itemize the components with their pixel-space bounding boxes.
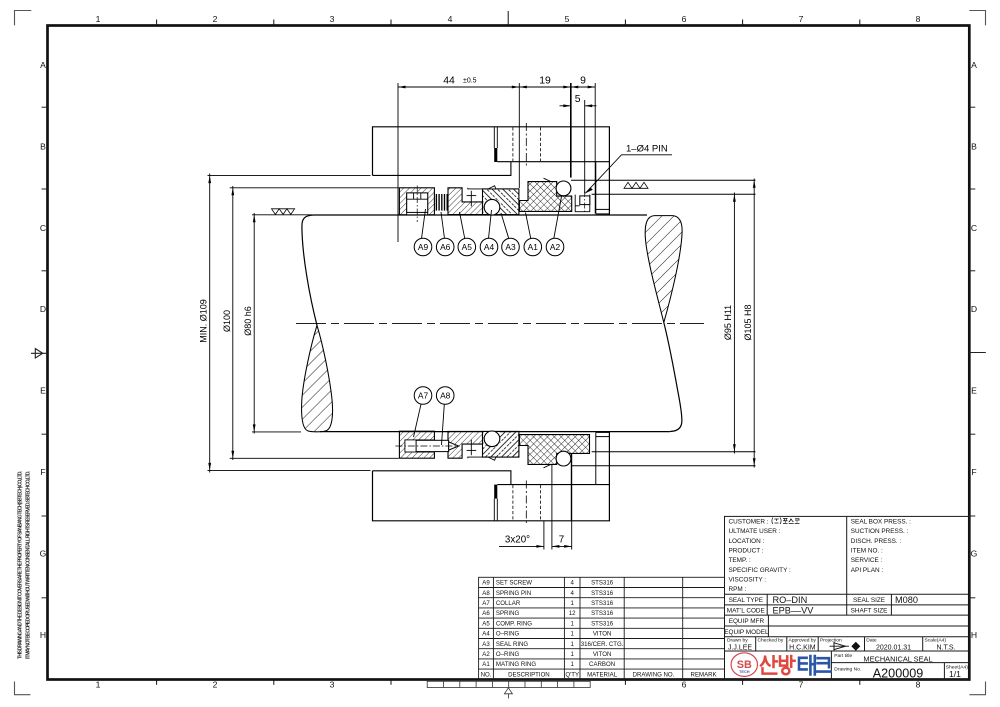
svg-text:9: 9 [580,76,586,87]
dim O95 H11 [733,193,735,454]
svg-text:3: 3 [330,680,335,690]
logo hangul SANBANG (red, vector) [761,656,795,674]
surface roughness marks on shaft (top-left) [272,209,295,215]
svg-text:1: 1 [96,680,101,690]
svg-text:MIN. Ø109: MIN. Ø109 [199,299,209,343]
housing bore lines right [571,180,756,465]
svg-text:2: 2 [213,680,218,690]
mating ring A1 lower [519,435,589,465]
svg-text:7: 7 [799,14,804,24]
svg-text:F: F [971,467,976,477]
svg-text:O–RING: O–RING [496,651,520,658]
balloon A2 [554,197,562,239]
svg-text:ITEM NO. :: ITEM NO. : [851,548,883,555]
svg-text:316/CER. CTG.: 316/CER. CTG. [581,641,624,648]
svg-text:A1: A1 [482,661,490,668]
svg-text:Ø105 H8: Ø105 H8 [743,304,753,340]
svg-text:D: D [971,304,977,314]
gland slot lower [493,499,495,521]
balloon A7 [414,404,422,437]
shaft right profile [664,323,682,432]
o-ring A4 upper [484,199,500,215]
svg-text:SEAL SIZE: SEAL SIZE [853,597,885,604]
dim 3x20 deg [499,545,544,547]
svg-text:SHAFT SIZE: SHAFT SIZE [851,607,888,614]
frame row ticks [42,107,986,598]
svg-text:CARBON: CARBON [589,661,615,668]
svg-text:1: 1 [96,14,101,24]
svg-text:A5: A5 [462,242,473,252]
svg-text:Ø80 h6: Ø80 h6 [243,306,253,336]
svg-text:SEAL TYPE: SEAL TYPE [729,597,763,604]
svg-text:7: 7 [799,680,804,690]
svg-text:A: A [40,60,46,70]
svg-text:M080: M080 [895,595,918,605]
gland slot upper [493,127,495,148]
gland plate lower flange [373,432,610,521]
svg-text:SEAL BOX PRESS. :: SEAL BOX PRESS. : [851,519,911,526]
svg-text:EQUIP MODEL: EQUIP MODEL [724,629,769,636]
svg-text:5: 5 [575,94,581,105]
svg-text:3: 3 [330,14,335,24]
compression ring A5 upper [448,188,483,215]
shaft bottom edge [320,431,670,433]
svg-text:H: H [40,630,46,640]
svg-text:DISCH. PRESS. :: DISCH. PRESS. : [851,538,902,545]
svg-text:Checked by: Checked by [758,638,784,644]
shaft right cone break (hatched) [645,216,682,323]
metric reference scale bar [427,681,590,698]
svg-text:STS316: STS316 [591,610,614,617]
svg-text:7: 7 [559,535,564,546]
svg-text:1: 1 [571,651,575,658]
gland bolt hole (hidden) upper [512,127,514,161]
svg-text:1: 1 [571,641,575,648]
svg-text:1/1: 1/1 [949,669,961,679]
dim O100 [232,186,234,460]
collar A7 upper [399,188,434,215]
gland recess face line lower (thick) [571,454,573,521]
svg-text:SEAL RING: SEAL RING [496,641,529,648]
seal ring A3 upper [483,189,519,215]
balloon A6 [441,212,445,239]
svg-text:2020.01.31: 2020.01.31 [876,645,911,652]
svg-text:COLLAR: COLLAR [496,600,521,607]
svg-text:ULTMATE USER :: ULTMATE USER : [729,528,781,535]
svg-text:Ø100: Ø100 [222,310,232,332]
svg-text:Approved by: Approved by [789,638,817,644]
svg-text:Scale(A4): Scale(A4) [925,638,947,644]
svg-text:1: 1 [571,661,575,668]
svg-text:1: 1 [571,600,575,607]
o-ring A2 upper [556,181,571,196]
svg-text:DRAWING NO.: DRAWING NO. [633,671,675,678]
gland bolt hole (hidden) lower [512,485,514,520]
svg-text:SPRING PIN: SPRING PIN [496,590,531,597]
gland outer ring upper [595,162,597,214]
compression ring A5 lower [448,431,483,458]
drive pin of comp ring lower [470,440,472,456]
svg-text:A9: A9 [482,580,490,587]
svg-text:VITON: VITON [593,631,612,638]
svg-text:C: C [971,223,977,233]
svg-text:A200009: A200009 [873,666,923,680]
svg-text:CUSTOMER :: CUSTOMER : [729,519,769,526]
svg-text:D: D [40,304,46,314]
svg-text:E: E [971,386,977,396]
svg-text:TEMP. :: TEMP. : [729,557,751,564]
svg-text:H: H [971,630,977,640]
svg-text:DESCRIPTION: DESCRIPTION [508,671,550,678]
dim 5 [560,105,597,107]
balloon A4 [489,210,492,239]
svg-text:VISCOSITY :: VISCOSITY : [729,576,767,583]
parts list table [479,577,725,679]
svg-text:6: 6 [682,680,687,690]
gland recess face line (thick) [570,83,572,178]
svg-text:8: 8 [916,680,921,690]
set screw A9 [407,193,428,213]
svg-text:A1: A1 [528,242,539,252]
spring A6 [436,194,447,211]
drive pin of comp ring upper [470,191,472,207]
svg-text:A8: A8 [440,390,451,400]
dim 44 +-0.5 [398,86,519,88]
svg-text:SUCTION PRESS. :: SUCTION PRESS. : [851,528,909,535]
surface roughness marks on bore (top-right) [624,182,648,188]
svg-text:4: 4 [571,580,575,587]
projection symbol [830,642,850,651]
svg-text:LOCATION :: LOCATION : [729,538,765,545]
svg-text:Date: Date [866,638,877,644]
frame row letters [40,60,978,640]
svg-text:STS316: STS316 [591,620,614,627]
spring pin A8 [416,440,449,451]
left centering arrow [31,349,48,358]
svg-text:API PLAN :: API PLAN : [851,567,884,574]
svg-text:Part title: Part title [834,653,852,659]
svg-text:STS316: STS316 [591,590,614,597]
balloon A9 [422,209,426,239]
dim 19 [519,86,571,88]
svg-text:SERVICE :: SERVICE : [851,557,883,564]
shaft top edge [314,214,648,216]
svg-text:A7: A7 [418,390,429,400]
shaft left profile [302,215,317,325]
svg-text:Projection: Projection [820,638,842,644]
svg-text:A5: A5 [482,620,490,627]
svg-text:Drawn by: Drawn by [727,638,748,644]
dimension extension lines [208,83,596,550]
svg-text:A4: A4 [484,242,495,252]
customer korean name (vector strokes) [772,518,800,525]
svg-text:1: 1 [571,631,575,638]
balloon A8 [442,404,445,445]
svg-text:8: 8 [916,14,921,24]
svg-text:STS316: STS316 [591,580,614,587]
dim O105 H8 [753,179,755,468]
pin slot upper [575,195,590,212]
o-ring A4 lower [484,431,500,447]
svg-text:B: B [971,141,977,151]
svg-text:COMP. RING: COMP. RING [496,620,532,627]
svg-text:A3: A3 [505,242,516,252]
svg-text:IT MAY NOT BE COPIED OR USED W: IT MAY NOT BE COPIED OR USED WITHOUT WRI… [26,470,32,659]
svg-text:44: 44 [443,76,455,87]
svg-text:SET SCREW: SET SCREW [496,580,532,587]
svg-text:A: A [971,60,977,70]
svg-text:N.T.S.: N.T.S. [936,645,955,652]
svg-text:A2: A2 [550,242,561,252]
svg-text:C: C [40,223,46,233]
svg-text:PRODUCT :: PRODUCT : [729,548,764,555]
svg-text:MECHANICAL SEAL: MECHANICAL SEAL [863,654,932,663]
pin upper [580,196,590,205]
svg-text:6: 6 [682,14,687,24]
svg-text:1–Ø4 PIN: 1–Ø4 PIN [626,144,668,155]
svg-text:O–RING: O–RING [496,631,520,638]
shaft centerline [296,322,704,324]
o-ring A2 lower [556,451,571,466]
gland outer ring lower [595,433,597,485]
svg-text:Q'TY: Q'TY [565,671,579,678]
svg-text:RPM :: RPM : [729,586,747,593]
mating ring A1 upper [519,182,571,212]
logo hangul TECH (blue, vector) [799,656,831,674]
svg-text:A4: A4 [482,631,490,638]
svg-text:H.C.KIM: H.C.KIM [789,644,816,651]
svg-text:4: 4 [571,590,575,597]
seal type row [724,597,887,636]
svg-text:A3: A3 [482,641,490,648]
frame column numbers [96,14,921,690]
svg-text:EQUIP MFR: EQUIP MFR [729,618,765,625]
dim MIN O109 [209,174,211,473]
collar A7 lower [399,431,434,458]
svg-text:A7: A7 [482,600,490,607]
svg-text:SPECIFIC GRAVITY :: SPECIFIC GRAVITY : [729,567,791,574]
svg-text:Ø95 H11: Ø95 H11 [723,305,733,340]
svg-text:J.J.LEE: J.J.LEE [728,644,752,651]
svg-text:1: 1 [571,620,575,627]
svg-text:12: 12 [569,610,576,617]
gland plate upper flange [373,127,610,215]
frame column ticks [157,11,860,685]
svg-text:VITON: VITON [593,651,612,658]
svg-text:STS316: STS316 [591,600,614,607]
svg-text:B: B [40,141,46,151]
svg-text:Drawing No.: Drawing No. [834,667,861,673]
svg-text:19: 19 [539,76,551,87]
dim 7 [552,545,572,547]
svg-text:F: F [40,467,45,477]
svg-text:5: 5 [565,14,570,24]
svg-text:G: G [40,549,47,559]
svg-text:±0.5: ±0.5 [463,78,477,85]
svg-text:TECH: TECH [739,669,750,674]
shaft left cone break (hatched) [302,325,333,432]
svg-text:REMARK: REMARK [691,671,717,678]
svg-text:RO–DIN: RO–DIN [773,595,808,605]
balloon A3 [501,213,509,239]
svg-text:MAT’L CODE: MAT’L CODE [727,607,765,614]
seal ring A3 lower [483,431,519,457]
svg-text:MATERIAL: MATERIAL [587,671,618,678]
svg-text:MATING RING: MATING RING [496,661,536,668]
title block customer info [729,519,912,594]
svg-text:3x20°: 3x20° [505,535,530,546]
dim 9 [571,86,595,88]
svg-text:THIS DRAWING AND THE DESIGN IT: THIS DRAWING AND THE DESIGN IT COVERS AR… [18,470,24,659]
title block [725,516,970,679]
drawn-by row [727,638,946,644]
svg-text:A9: A9 [418,242,429,252]
svg-text:A2: A2 [482,651,490,658]
svg-text:4: 4 [448,14,453,24]
svg-text:NO.: NO. [481,671,492,678]
balloon A1 [526,213,531,239]
svg-text:2: 2 [213,14,218,24]
svg-text:SPRING: SPRING [496,610,520,617]
svg-text:A6: A6 [440,242,451,252]
svg-text:E: E [40,386,46,396]
svg-text:EPB––VV: EPB––VV [773,605,815,615]
balloon A5 [460,212,465,239]
svg-text:A6: A6 [482,610,490,617]
svg-text:A8: A8 [482,590,490,597]
svg-text:G: G [971,549,978,559]
SB TECH logo emblem [731,653,757,677]
dim O80 h6 [253,213,255,434]
